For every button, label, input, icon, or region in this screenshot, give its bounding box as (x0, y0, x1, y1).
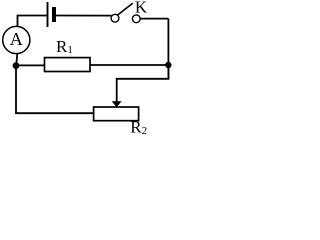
wire: right rail vertical (167, 19, 169, 79)
wire: junction to R1 (16, 64, 45, 66)
wire: ammeter top stub and top wire to battery (18, 16, 47, 27)
wire: battery to switch (56, 15, 111, 17)
switch K left contact circle (111, 14, 119, 22)
wire: R1 to right rail (90, 64, 168, 66)
battery B1 long plate (47, 2, 49, 27)
resistor R1 box (45, 58, 91, 72)
svg-text:A: A (10, 29, 23, 49)
rheostat R2 box (94, 107, 139, 121)
wire: bottom wire to R2 (15, 112, 94, 114)
node junction left (13, 62, 20, 69)
wire: switch to right rail (140, 18, 168, 20)
wire: right rail step to wiper (117, 65, 169, 102)
switch K lever (117, 3, 133, 15)
wire: left rail vertical (15, 66, 17, 114)
node junction right (165, 62, 171, 68)
svg-text:K: K (135, 0, 148, 16)
switch K right contact circle (132, 15, 140, 23)
battery B1 short thick plate (52, 7, 56, 22)
ammeter A1 (3, 26, 30, 53)
wire: ammeter bottom stub (16, 54, 17, 66)
wiper arrowhead (112, 101, 122, 107)
